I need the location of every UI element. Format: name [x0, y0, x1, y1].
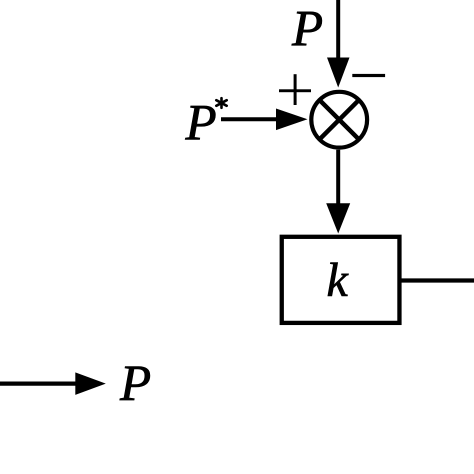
wire: top vertical input line into summing junction [336, 0, 340, 60]
wire: left horizontal input line [221, 117, 278, 121]
wire: gain block output to right edge [400, 278, 474, 282]
wire: summing junction output down to gain block [336, 150, 340, 206]
asterisk superscript of P* [216, 98, 226, 108]
plus sign at summing junction [279, 74, 311, 105]
value label k [328, 263, 349, 296]
summing junction (circle with X) [311, 92, 367, 148]
arrowhead into summing junction top [327, 58, 350, 88]
arrowhead into summing junction left [276, 109, 308, 131]
gain block k [282, 237, 400, 323]
wire: bottom-left output line [0, 381, 77, 385]
node P (bottom output label) [120, 367, 150, 400]
arrowhead into gain block [326, 203, 350, 233]
node P (top input label) [292, 12, 322, 45]
arrowhead of bottom-left output [75, 372, 106, 395]
minus sign at summing junction [352, 74, 385, 77]
node P* (left input label) [185, 106, 215, 139]
